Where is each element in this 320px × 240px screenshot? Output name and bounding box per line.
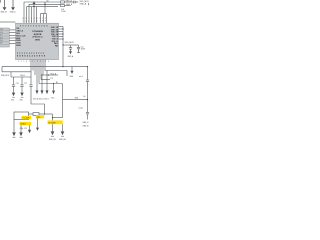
capacitor C22 (21, 77, 23, 85)
svg-text:GND_SB: GND_SB (59, 139, 66, 141)
svg-text:PA9: PA9 (55, 44, 58, 47)
ground arrow under C11 (69, 51, 72, 54)
capacitor C1 (74, 1, 78, 4)
decoupling caps group (2, 67, 33, 93)
svg-text:P P P P P P P P P P P P: P P P P P P P P P P P P (17, 53, 45, 55)
capacitor C31 (86, 79, 89, 81)
svg-text:GND_A: GND_A (66, 0, 73, 3)
svg-text:1nF: 1nF (83, 96, 86, 98)
svg-text:GND_A: GND_A (68, 55, 74, 58)
ground under crystal pin2 (20, 125, 22, 132)
ground arrow under C21 (12, 93, 15, 97)
power flag GND_A (down arrow) (3, 0, 7, 10)
wire into IC pin top-left (0, 21, 16, 23)
wires J1 to U1 (9, 30, 15, 44)
highlight R30 label (yellow) (36, 115, 44, 118)
svg-text:GND: GND (11, 100, 15, 102)
ground left of R30 (37, 118, 39, 127)
highlight OSC label (yellow) (48, 120, 63, 124)
wire VDD bus (27, 6, 37, 8)
svg-text:C27: C27 (24, 83, 27, 85)
svg-text:GND_A: GND_A (80, 3, 87, 6)
svg-text:100nF: 100nF (81, 49, 86, 51)
svg-text:32.768K: 32.768K (48, 122, 56, 124)
svg-text:GND_D: GND_D (10, 12, 17, 14)
ground D (52, 91, 55, 95)
wire FB2 (65, 5, 71, 7)
capacitor C12 (77, 47, 80, 52)
capacitor C23 in line (29, 84, 32, 86)
ground under crystal pin1 (13, 120, 15, 133)
wire horizontal y13.5 (41, 13, 47, 15)
svg-text:6 F: 6 F (0, 43, 2, 45)
label J1 pin texts (0, 28, 3, 45)
connector J1 (0, 28, 9, 47)
wire right vertical rail (62, 27, 64, 67)
svg-text:C26: C26 (16, 83, 19, 85)
svg-text:R 0: R 0 (51, 78, 54, 80)
ground arrows mid row (33, 90, 55, 100)
svg-text:GND_S: GND_S (83, 122, 90, 124)
corner tick mark (88, 3, 90, 5)
power flag VDD (up arrow) (33, 1, 36, 6)
ground GND_SB (62, 124, 64, 131)
wire lower-right branch (63, 67, 90, 120)
power flag GND_D (down arrow) (11, 0, 15, 10)
label U1 part name (32, 31, 43, 41)
ferrite bead FB1 (61, 1, 65, 3)
highlight XTAL label (yellow) (20, 122, 32, 125)
resistor R30 (33, 113, 39, 116)
wire into crystal (31, 87, 45, 114)
svg-text:ref_d: ref_d (79, 76, 83, 78)
svg-text:(F Model C): (F Model C) (33, 36, 43, 38)
svg-text:GND_B: GND_B (66, 4, 73, 6)
svg-text:C12: C12 (81, 46, 84, 48)
wire (65, 1, 74, 3)
crystal Y1 box (14, 112, 29, 120)
svg-text:AQW7B: AQW7B (34, 33, 42, 36)
svg-text:GND: GND (70, 76, 74, 78)
wire branches right (45, 71, 67, 77)
ground GND_SR (52, 124, 54, 131)
wire resistor to node (39, 113, 53, 115)
svg-text:VDD_MCU: VDD_MCU (65, 42, 75, 44)
capacitor C11 (69, 48, 72, 52)
svg-text:V V V V V V G G V D D: V V V V V V G G V D D (20, 25, 48, 27)
svg-text:VDD_MCU: VDD_MCU (80, 1, 90, 3)
svg-text:ref_ds: ref_ds (79, 108, 84, 110)
ground arrow under C22 (20, 93, 23, 97)
corner stub top-left (0, 0, 2, 3)
capacitor C32 (87, 100, 89, 113)
crystal circuit (14, 87, 63, 121)
wires U1 right stubs (59, 27, 79, 67)
svg-text:L10: L10 (46, 1, 49, 3)
svg-text:Y1_32K: Y1_32K (22, 118, 30, 120)
svg-text:B1: B1 (56, 82, 58, 84)
svg-text:226_A: 226_A (20, 74, 26, 77)
ground arrows bottom (12, 118, 65, 141)
ground A (36, 90, 39, 94)
label U1 right pin names (51, 27, 59, 47)
svg-text:5 E: 5 E (0, 40, 2, 42)
highlight Y1 label (yellow) (22, 116, 32, 119)
power flag down on rail (70, 67, 74, 78)
wire top rail 2 (29, 3, 61, 5)
wire long horizontal rail (2, 66, 88, 68)
wire left gnd branch (1, 67, 3, 72)
ferrite bead FB2 (61, 5, 65, 7)
svg-text:4R0M: 4R0M (35, 39, 40, 42)
svg-text:MOD: MOD (16, 45, 21, 47)
wire top rail 1 (24, 1, 61, 3)
svg-text:GND_A GND_B GND_C: GND_A GND_B GND_C (33, 97, 50, 100)
wire VDD_MCU branch (63, 44, 79, 46)
svg-text:GND_SR: GND_SR (49, 139, 56, 141)
wire loop to right rail (53, 117, 63, 119)
IC U1 STM32 body (16, 23, 59, 59)
wire crystal to resistor (29, 113, 34, 115)
wires U1 bottom pin drops (31, 60, 67, 100)
label U1 left pin names (16, 28, 26, 47)
svg-text:MCU_A: MCU_A (51, 72, 58, 75)
wire cap top rail (11, 76, 31, 78)
svg-text:2 B: 2 B (0, 32, 2, 34)
svg-text:GND_M: GND_M (0, 12, 7, 14)
wire vertical feed to NRST group (44, 2, 46, 14)
svg-text:GND: GND (20, 100, 24, 102)
junction dots top (33, 4, 45, 8)
svg-text:XTAL1: XTAL1 (20, 123, 27, 126)
svg-text:1.2nF: 1.2nF (61, 11, 66, 13)
svg-text:GND: GND (51, 98, 55, 100)
capacitor C21 (13, 77, 15, 85)
svg-text:8 5 2 1 4 0 1 2 3: 8 5 2 1 4 0 1 2 3 (23, 18, 47, 20)
ground under crystal pin3 (29, 125, 31, 130)
wire pin drops into IC top (23, 2, 25, 23)
svg-text:GND_B: GND_B (83, 125, 90, 127)
svg-text:1 2 3 4 5 6 7 8 9: 1 2 3 4 5 6 7 8 9 (23, 20, 47, 22)
svg-text:GND_MCU: GND_MCU (1, 75, 10, 77)
